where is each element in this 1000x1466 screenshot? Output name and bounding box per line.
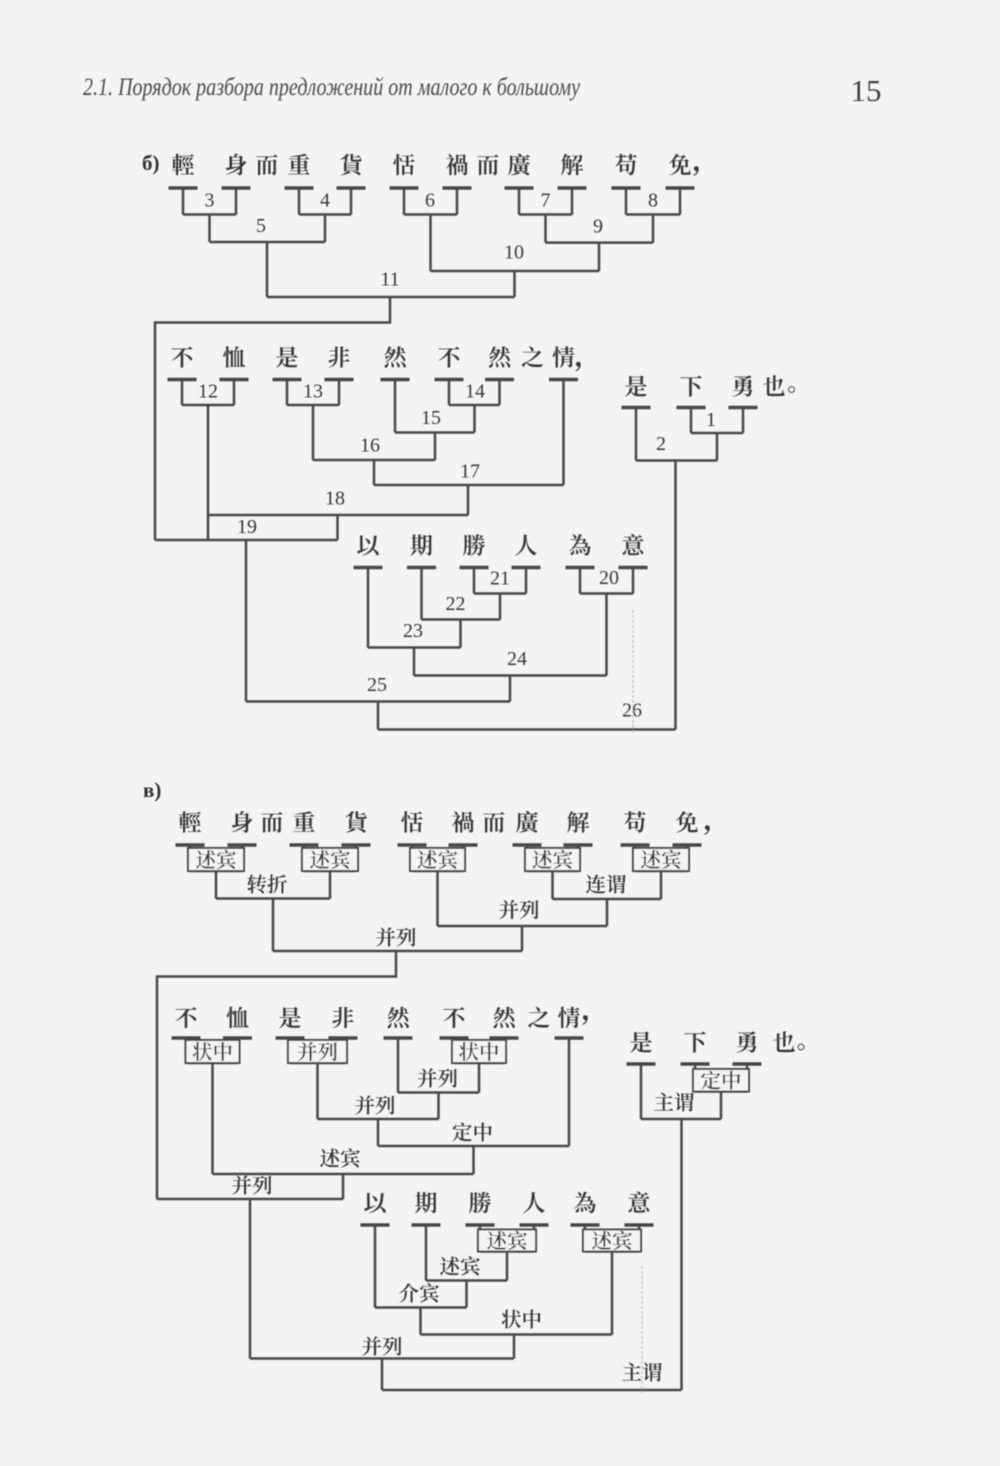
fold mark v — [641, 1266, 643, 1393]
svg-text:2: 2 — [656, 433, 666, 455]
label binglie10 — [499, 900, 538, 919]
leaf tick 情 — [549, 380, 578, 486]
bracket v-shubin4-line — [527, 871, 578, 899]
bracket v-binglie13-line — [290, 1063, 345, 1119]
svg-text:4: 4 — [320, 190, 330, 212]
box label shubin1 — [188, 848, 244, 871]
leaf tick 意 — [625, 1225, 654, 1252]
leaf tick 為 — [566, 568, 595, 594]
bracket 1 — [691, 433, 743, 461]
label shubin22 — [440, 1256, 480, 1275]
svg-text:22: 22 — [446, 593, 466, 615]
svg-text:б): б) — [142, 151, 160, 175]
leaf tick 禍 — [443, 188, 472, 215]
leaf tick 人 — [512, 568, 541, 594]
leaf tick 下 — [677, 408, 706, 434]
label binglie16 — [355, 1095, 394, 1114]
leaf tick 解 — [564, 845, 593, 871]
bracket 16 — [313, 460, 435, 485]
svg-text:23: 23 — [403, 620, 423, 642]
text row v-row3 — [364, 1192, 650, 1214]
label binglie11 — [376, 927, 415, 946]
leaf tick 人 — [520, 1225, 549, 1252]
box label shubin20 — [583, 1230, 641, 1252]
svg-text:2.1. Порядок разбора предложен: 2.1. Порядок разбора предложений от мало… — [83, 74, 581, 101]
label dingzhong17 — [453, 1123, 492, 1142]
bracket v-zhuwei26 — [382, 1389, 682, 1392]
leaf tick 勝 — [460, 568, 489, 594]
label zhuwei2 — [654, 1093, 694, 1112]
text row b-row2 — [171, 346, 581, 371]
leaf tick 解 — [558, 188, 587, 215]
leaf tick 不 — [440, 1038, 469, 1063]
leaf tick 期 — [407, 568, 436, 620]
label zhuwei26 — [622, 1363, 662, 1382]
leaf tick 是 — [276, 1038, 305, 1063]
svg-text:6: 6 — [425, 190, 435, 212]
svg-text:19: 19 — [237, 516, 257, 538]
bracket 25 — [246, 702, 510, 730]
leaf tick 恤 — [223, 1038, 252, 1063]
box label shubin2 — [302, 848, 358, 871]
bracket 21 — [474, 594, 526, 620]
leaf tick 不 — [168, 380, 197, 406]
bracket 7 — [519, 215, 572, 243]
leaf tick 重 — [290, 845, 319, 871]
leaf tick 廣 — [505, 188, 534, 215]
bracket v-binglie19 — [157, 1199, 343, 1359]
leaf tick 以 — [354, 568, 383, 648]
bracket 9 — [546, 243, 654, 271]
label shubin18 — [320, 1148, 360, 1167]
leaf tick 苟 — [612, 188, 641, 215]
leaf tick 恤 — [220, 380, 249, 406]
leaf tick 是 — [622, 408, 651, 461]
leaf tick 是 — [627, 1064, 656, 1119]
bracket 17 — [374, 485, 564, 515]
text row b-row3 — [357, 534, 644, 556]
svg-text:5: 5 — [256, 215, 266, 237]
svg-text:10: 10 — [504, 242, 524, 264]
bracket 26 — [378, 728, 676, 731]
bracket v-binglie16 — [318, 1119, 439, 1146]
bracket 6 — [404, 215, 457, 272]
bracket 3 — [183, 215, 236, 243]
svg-text:11: 11 — [380, 269, 399, 291]
bracket v-binglie25 — [250, 1359, 514, 1391]
bracket 20 — [580, 594, 633, 676]
bracket v-binglie15 — [398, 1093, 479, 1120]
svg-text:8: 8 — [648, 190, 658, 212]
bracket 8 — [626, 215, 680, 243]
leaf tick 恬 — [398, 845, 427, 871]
bracket v-binglie11 — [157, 951, 522, 1199]
bracket v-shubin2-line — [304, 871, 356, 899]
bracket v-dingzhong1-line — [695, 1092, 747, 1120]
bracket v-shubin20-line — [585, 1252, 639, 1335]
bracket v-jiebin23 — [375, 1308, 467, 1335]
leaf tick 輕 — [176, 845, 205, 871]
bracket v-zhuangzhong14-line — [454, 1063, 504, 1093]
text row v-row2 — [175, 1007, 588, 1029]
leaf tick 輕 — [169, 188, 198, 215]
svg-text:24: 24 — [507, 648, 527, 670]
svg-text:18: 18 — [325, 488, 345, 510]
bracket 12 — [182, 405, 234, 540]
box label shubin4 — [525, 848, 580, 871]
box label zhuangzhong14 — [452, 1040, 506, 1063]
bracket 15 — [395, 433, 475, 461]
leaf tick 非 — [325, 380, 354, 406]
text row v-row1 — [179, 811, 710, 835]
text row b-rowC — [625, 375, 795, 397]
svg-text:7: 7 — [541, 190, 551, 212]
svg-text:3: 3 — [205, 190, 215, 212]
bracket 22 — [422, 620, 501, 648]
bracket 5 — [210, 242, 326, 297]
bracket 11 — [155, 297, 515, 540]
box label shubin5 — [633, 848, 689, 871]
bracket v-zhuanzhe — [216, 899, 330, 952]
bracket 23 — [368, 648, 461, 676]
bracket 24 — [414, 676, 607, 702]
leaf tick 苟 — [621, 845, 650, 871]
box label shubin3 — [410, 848, 465, 871]
leaf tick 以 — [361, 1225, 390, 1308]
leaf tick 不 — [435, 380, 464, 406]
label zhuangzhong24 — [502, 1310, 541, 1329]
leaf tick 情 — [555, 1038, 584, 1146]
bracket v-shubin5-line — [635, 871, 687, 899]
leaf tick 然 — [384, 1038, 413, 1093]
bracket 4 — [299, 215, 351, 243]
label binglie25 — [362, 1336, 401, 1355]
bracket v-binglie10 — [438, 926, 608, 951]
bracket v-dingzhong17 — [378, 1146, 569, 1174]
leaf tick 下 — [681, 1064, 710, 1092]
svg-text:20: 20 — [599, 567, 619, 589]
bracket v-shubin21-line — [480, 1252, 534, 1281]
leaf tick 非 — [329, 1038, 358, 1063]
leaf tick 廣 — [513, 845, 542, 871]
leaf tick 免 — [673, 845, 702, 871]
bracket 19 — [155, 540, 338, 702]
text row b-row1 — [172, 154, 699, 176]
text row v-rowC — [630, 1031, 804, 1053]
leaf tick 勝 — [466, 1225, 495, 1252]
leaf tick 然 — [490, 1038, 519, 1063]
leaf tick 貨 — [342, 845, 371, 871]
label binglie15 — [418, 1068, 457, 1087]
leaf tick 然 — [381, 380, 410, 433]
svg-text:9: 9 — [593, 216, 603, 238]
leaf tick 期 — [412, 1225, 441, 1281]
bracket v-zhuwei2 — [641, 1119, 721, 1390]
label jiebin23 — [399, 1283, 439, 1302]
svg-text:14: 14 — [465, 381, 485, 403]
leaf tick 禍 — [449, 845, 478, 871]
box label zhuangzhong12 — [186, 1040, 240, 1063]
fold mark b — [632, 610, 634, 733]
box label shubin21 — [478, 1230, 536, 1252]
svg-text:15: 15 — [421, 407, 441, 429]
bracket 13 — [287, 405, 339, 460]
label lianwei — [586, 875, 626, 894]
leaf tick 身 — [228, 845, 257, 871]
leaf tick 重 — [285, 188, 314, 215]
svg-text:17: 17 — [460, 461, 480, 483]
svg-text:26: 26 — [622, 700, 642, 722]
label binglie19 — [232, 1175, 271, 1194]
svg-text:25: 25 — [367, 674, 387, 696]
svg-text:в): в) — [143, 778, 161, 802]
bracket v-zhuangzhong24 — [421, 1335, 613, 1359]
leaf tick 然 — [485, 380, 514, 406]
svg-text:1: 1 — [706, 409, 716, 431]
leaf tick 免 — [666, 188, 695, 215]
bracket 2 — [636, 461, 717, 730]
svg-text:13: 13 — [303, 381, 323, 403]
svg-text:12: 12 — [198, 381, 218, 403]
svg-text:16: 16 — [360, 435, 380, 457]
leaf tick 貨 — [337, 188, 366, 215]
bracket v-shubin18 — [213, 1174, 474, 1199]
label zhuanzhe — [247, 874, 287, 893]
leaf tick 身 — [222, 188, 251, 215]
bracket v-shubin22 — [426, 1281, 507, 1308]
bracket v-lianwei — [553, 899, 662, 926]
bracket 18 — [208, 515, 468, 540]
leaf tick 意 — [619, 568, 648, 594]
box label binglie13 — [288, 1040, 347, 1063]
svg-text:15: 15 — [851, 73, 882, 108]
leaf tick 為 — [571, 1225, 600, 1252]
bracket v-zhuangzhong12-line — [188, 1063, 238, 1174]
bracket v-shubin3-line — [412, 871, 463, 926]
box label dingzhong1 — [693, 1069, 749, 1092]
leaf tick 是 — [273, 380, 302, 406]
leaf tick 恬 — [390, 188, 419, 215]
bracket 14 — [449, 405, 500, 433]
leaf tick 勇 — [729, 408, 758, 434]
bracket 10 — [431, 271, 600, 297]
leaf tick 不 — [172, 1038, 201, 1063]
leaf tick 勇 — [733, 1064, 762, 1092]
svg-text:21: 21 — [490, 568, 510, 590]
bracket v-shubin1-line — [190, 871, 242, 899]
